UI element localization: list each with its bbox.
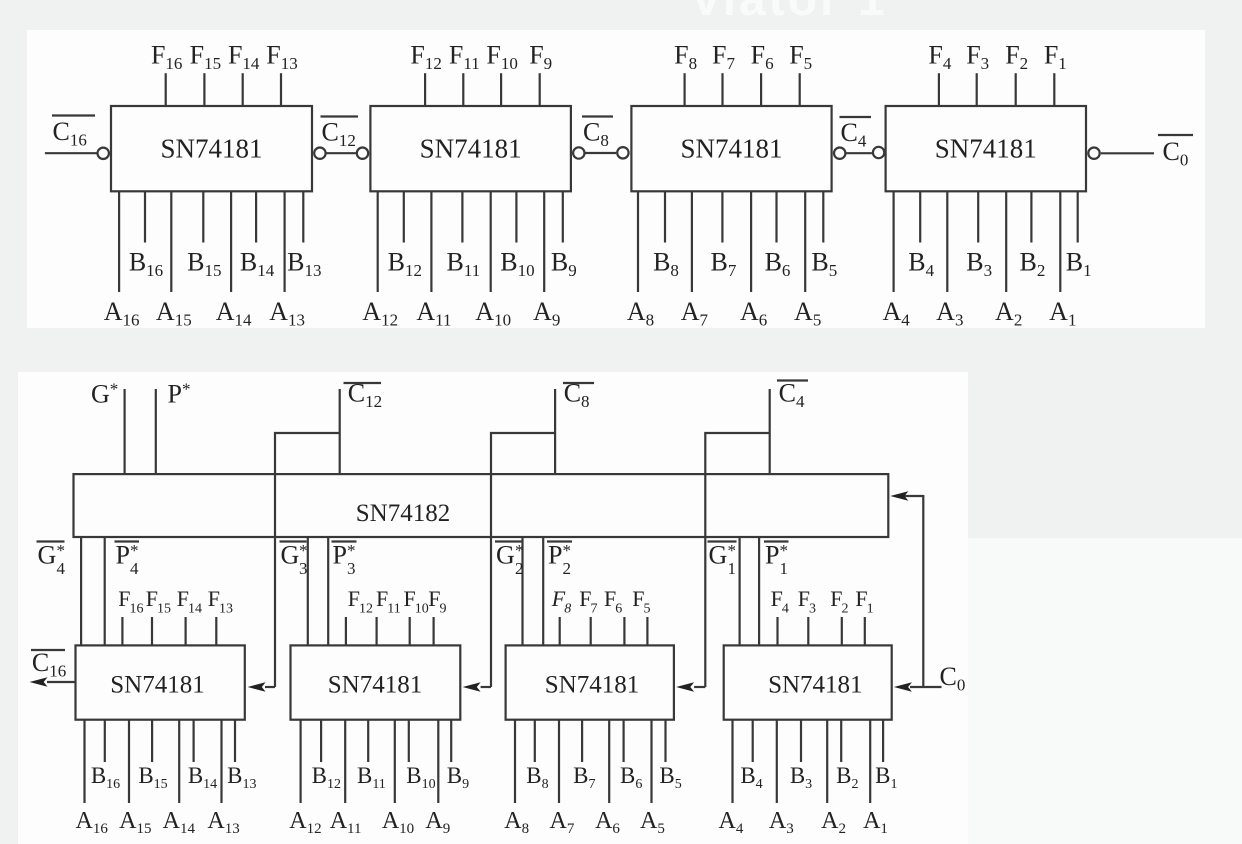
label G4*-bar <box>37 541 66 579</box>
U6 F14 output pin wire <box>185 617 187 645</box>
wire G3* from U5 to ALU <box>307 537 309 645</box>
svg-text:P: P <box>333 541 347 570</box>
wire C12-bar pin at U5 top <box>339 389 341 474</box>
svg-text:G: G <box>38 541 57 570</box>
U8 F7 output pin wire <box>590 617 592 645</box>
wire C8-bar jog down to U7 carry input <box>491 433 555 687</box>
IC U8 SN74181 (bottom row) box <box>506 645 674 719</box>
U9 F4 output pin wire <box>776 617 778 645</box>
U3 F7 output pin wire <box>721 73 723 106</box>
svg-text:SN74181: SN74181 <box>768 672 862 699</box>
arrowhead C16-bar output <box>30 677 48 687</box>
U3 A7 input pin wire <box>691 191 693 292</box>
wire C0 horizontal into U9 <box>910 686 942 688</box>
U3 A8 input pin wire <box>637 191 639 292</box>
U1 A16 input pin wire <box>118 191 120 292</box>
overline of C4-bar label <box>840 116 872 118</box>
U7 A10 input pin wire <box>394 720 396 803</box>
U1 B15 input pin wire <box>202 191 204 242</box>
U6 B14 input pin wire <box>193 720 195 762</box>
wire G4* from U5 to ALU <box>80 537 82 645</box>
wire G* output of U5 <box>123 389 125 474</box>
U9 B1 input pin wire <box>882 720 884 762</box>
svg-text:3: 3 <box>347 559 356 578</box>
wire C12-bar between U1 and U2 <box>327 152 356 154</box>
arrowhead carry into U7 <box>463 682 481 692</box>
wire C4-bar pin at U5 top <box>769 389 771 474</box>
U4 A2 input pin wire <box>1005 191 1007 292</box>
U9 A2 input pin wire <box>826 720 828 803</box>
U8 F6 output pin wire <box>623 617 625 645</box>
U2 B11 input pin wire <box>461 191 463 242</box>
inverting bubble U2 left <box>357 148 368 159</box>
U6 A16 input pin wire <box>83 720 85 803</box>
U2 B10 input pin wire <box>515 191 517 242</box>
U6 A13 input pin wire <box>220 720 222 803</box>
U2 F10 output pin wire <box>500 73 502 106</box>
svg-text:2: 2 <box>515 559 524 578</box>
U2 A11 input pin wire <box>430 191 432 292</box>
inverting bubble U2 right <box>573 147 584 158</box>
U7 F10 output pin wire <box>409 617 411 645</box>
U9 B4 input pin wire <box>752 720 754 762</box>
wire C0-bar input stub <box>1101 152 1154 154</box>
U3 A5 input pin wire <box>804 191 806 292</box>
U8 B6 input pin wire <box>622 720 624 762</box>
svg-text:SN74181: SN74181 <box>328 672 422 699</box>
svg-text:3: 3 <box>299 559 308 578</box>
U6 B15 input pin wire <box>151 720 153 762</box>
U9 F2 output pin wire <box>841 617 843 645</box>
U7 F9 output pin wire <box>433 617 435 645</box>
wire G2* from U5 to ALU <box>521 537 523 645</box>
wire into U7 carry input <box>481 686 491 688</box>
white panel: carry-lookahead figure <box>18 372 968 844</box>
U2 A10 input pin wire <box>490 191 492 292</box>
arrowhead carry into U6 <box>248 682 266 692</box>
U8 B8 input pin wire <box>534 720 536 762</box>
U3 B8 input pin wire <box>664 191 666 242</box>
U8 A7 input pin wire <box>558 720 560 803</box>
U4 B1 input pin wire <box>1077 191 1079 242</box>
svg-text:SN74181: SN74181 <box>420 134 522 164</box>
overline of C12-bar label <box>321 115 359 117</box>
U4 B3 input pin wire <box>977 191 979 242</box>
wire C4-bar between U3 and U4 <box>846 152 872 154</box>
svg-text:*: * <box>347 541 356 560</box>
U7 F11 output pin wire <box>376 617 378 645</box>
U3 F6 output pin wire <box>760 73 762 106</box>
U7 F12 output pin wire <box>345 617 347 645</box>
U4 F2 output pin wire <box>1015 73 1017 106</box>
arrowhead carry into U8 <box>676 682 694 692</box>
U4 F4 output pin wire <box>938 73 940 106</box>
overline of C12-bar label (bottom fig) <box>344 382 382 384</box>
U4 B2 input pin wire <box>1030 191 1032 242</box>
IC U4 SN74181 (top row) box <box>886 106 1086 191</box>
U7 B11 input pin wire <box>367 720 369 762</box>
wire G1* from U5 to ALU <box>738 537 740 645</box>
U7 B10 input pin wire <box>408 720 410 762</box>
IC U2 SN74181 (top row) box <box>370 106 571 191</box>
U8 F5 output pin wire <box>646 617 648 645</box>
svg-text:1: 1 <box>728 559 737 578</box>
U9 A1 input pin wire <box>869 720 871 803</box>
U7 B9 input pin wire <box>450 720 452 762</box>
U3 B6 input pin wire <box>775 191 777 242</box>
U2 B12 input pin wire <box>403 191 405 242</box>
U4 B4 input pin wire <box>919 191 921 242</box>
wire C16-bar output of U6 <box>47 681 76 683</box>
svg-text:SN74181: SN74181 <box>110 672 204 699</box>
U6 F15 output pin wire <box>151 617 153 645</box>
IC U6 SN74181 (bottom row) box <box>76 645 245 719</box>
svg-text:P: P <box>765 541 779 570</box>
IC U7 SN74181 (bottom row) box <box>291 645 461 719</box>
inverting bubble U4 left <box>873 147 884 158</box>
U1 B16 input pin wire <box>144 191 146 242</box>
U7 A12 input pin wire <box>300 720 302 803</box>
U1 F13 output pin wire <box>280 73 282 106</box>
svg-text:P: P <box>116 541 130 570</box>
wire C0 into U5 right edge <box>904 495 923 497</box>
U1 A14 input pin wire <box>230 191 232 292</box>
U6 F13 output pin wire <box>215 617 217 645</box>
U2 A12 input pin wire <box>377 191 379 292</box>
wire C0 vertical run <box>922 495 924 688</box>
svg-text:G: G <box>281 541 300 570</box>
label G1*-bar <box>708 541 737 579</box>
svg-text:*: * <box>57 541 66 560</box>
U4 A3 input pin wire <box>946 191 948 292</box>
label P1*-bar <box>764 541 789 579</box>
svg-text:G: G <box>496 541 515 570</box>
U4 A4 input pin wire <box>892 191 894 292</box>
U9 A4 input pin wire <box>731 720 733 803</box>
svg-text:*: * <box>563 541 572 560</box>
svg-text:SN74181: SN74181 <box>160 134 262 164</box>
U8 A5 input pin wire <box>650 720 652 803</box>
inverting bubble U4 right <box>1088 148 1099 159</box>
U6 A15 input pin wire <box>128 720 130 803</box>
U4 F3 output pin wire <box>976 73 978 106</box>
U9 F1 output pin wire <box>864 617 866 645</box>
IC U9 SN74181 (bottom row) box <box>724 645 892 719</box>
U9 B3 input pin wire <box>800 720 802 762</box>
U9 B2 input pin wire <box>840 720 842 762</box>
arrowhead C0 into U9 <box>894 682 912 692</box>
wire C8-bar pin at U5 top <box>554 389 556 474</box>
svg-text:SN74181: SN74181 <box>935 134 1037 164</box>
wire P* output of U5 <box>155 389 157 474</box>
U7 A11 input pin wire <box>344 720 346 803</box>
U1 F16 output pin wire <box>165 73 167 106</box>
U7 A9 input pin wire <box>437 720 439 803</box>
U2 F9 output pin wire <box>539 73 541 106</box>
wire P2* from U5 to ALU <box>542 537 544 645</box>
wire C8-bar between U2 and U3 <box>585 152 616 154</box>
label G3*-bar <box>280 541 308 579</box>
label P4*-bar <box>115 541 140 579</box>
overline of C8-bar label <box>582 115 613 117</box>
svg-text:2: 2 <box>563 559 572 578</box>
U6 A14 input pin wire <box>178 720 180 803</box>
U1 B14 input pin wire <box>255 191 257 242</box>
U1 A15 input pin wire <box>170 191 172 292</box>
svg-text:*: * <box>515 541 524 560</box>
wire into U8 carry input <box>694 686 705 688</box>
svg-text:*: * <box>299 541 308 560</box>
U3 B7 input pin wire <box>721 191 723 242</box>
U6 B16 input pin wire <box>104 720 106 762</box>
U9 A3 input pin wire <box>776 720 778 803</box>
inverting bubble U1 carry-out <box>98 148 109 159</box>
svg-text:*: * <box>780 541 789 560</box>
U8 B7 input pin wire <box>581 720 583 762</box>
svg-text:G: G <box>709 541 728 570</box>
wire C12-bar jog down to U6 carry input <box>275 433 340 687</box>
light area bottom-right <box>968 538 1242 844</box>
U4 A1 input pin wire <box>1059 191 1061 292</box>
inverting bubble U3 left <box>617 147 628 158</box>
wire C4-bar jog down to U8 carry input <box>705 433 769 687</box>
svg-text:P: P <box>548 541 562 570</box>
label P3*-bar <box>332 541 357 579</box>
U9 F3 output pin wire <box>807 617 809 645</box>
IC U1 SN74181 (top row) box <box>111 106 312 191</box>
overline of C0-bar label <box>1158 134 1193 136</box>
label P2*-bar <box>547 541 572 579</box>
U2 F11 output pin wire <box>462 73 464 106</box>
wire P1* from U5 to ALU <box>758 537 760 645</box>
overline of C16-bar label (bottom fig) <box>31 649 65 651</box>
U6 F16 output pin wire <box>121 617 123 645</box>
overline of C8-bar label (bottom fig) <box>563 382 594 384</box>
svg-text:SN74182: SN74182 <box>356 500 450 527</box>
svg-text:SN74181: SN74181 <box>680 134 782 164</box>
svg-text:*: * <box>728 541 737 560</box>
IC U5 SN74182 carry-lookahead box <box>74 474 889 537</box>
svg-text:1: 1 <box>780 559 789 578</box>
U3 B5 input pin wire <box>822 191 824 242</box>
svg-text:SN74181: SN74181 <box>545 672 639 699</box>
svg-text:4: 4 <box>130 559 139 578</box>
white panel: ripple-carry figure <box>27 30 1205 328</box>
U3 A6 input pin wire <box>750 191 752 292</box>
U8 A6 input pin wire <box>608 720 610 803</box>
U7 B12 input pin wire <box>320 720 322 762</box>
svg-text:*: * <box>130 541 139 560</box>
U1 F15 output pin wire <box>203 73 205 106</box>
IC U3 SN74181 (top row) box <box>631 106 831 191</box>
arrowhead C0 into U5 <box>890 491 908 501</box>
inverting bubble U3 right <box>834 148 845 159</box>
wire C16-bar output stub <box>45 152 97 154</box>
wire P4* from U5 to ALU <box>104 537 106 645</box>
U8 F8 output pin wire <box>559 617 561 645</box>
U8 A8 input pin wire <box>514 720 516 803</box>
U6 B13 input pin wire <box>234 720 236 762</box>
U3 F8 output pin wire <box>683 73 685 106</box>
svg-text:4: 4 <box>57 559 66 578</box>
label G2*-bar <box>495 541 524 579</box>
overline of C4-bar label (bottom fig) <box>777 379 808 381</box>
inverting bubble U1 right <box>314 148 325 159</box>
U2 B9 input pin wire <box>562 191 564 242</box>
U1 F14 output pin wire <box>242 73 244 106</box>
U2 A9 input pin wire <box>543 191 545 292</box>
wire into U6 carry input <box>265 686 275 688</box>
U8 B5 input pin wire <box>664 720 666 762</box>
U3 F5 output pin wire <box>799 73 801 106</box>
U2 F12 output pin wire <box>424 73 426 106</box>
U4 F1 output pin wire <box>1053 73 1055 106</box>
U1 B13 input pin wire <box>302 191 304 242</box>
U1 A13 input pin wire <box>284 191 286 292</box>
overline of C16-bar label <box>52 114 95 116</box>
wire P3* from U5 to ALU <box>327 537 329 645</box>
svg-text:viator 1: viator 1 <box>693 0 888 26</box>
